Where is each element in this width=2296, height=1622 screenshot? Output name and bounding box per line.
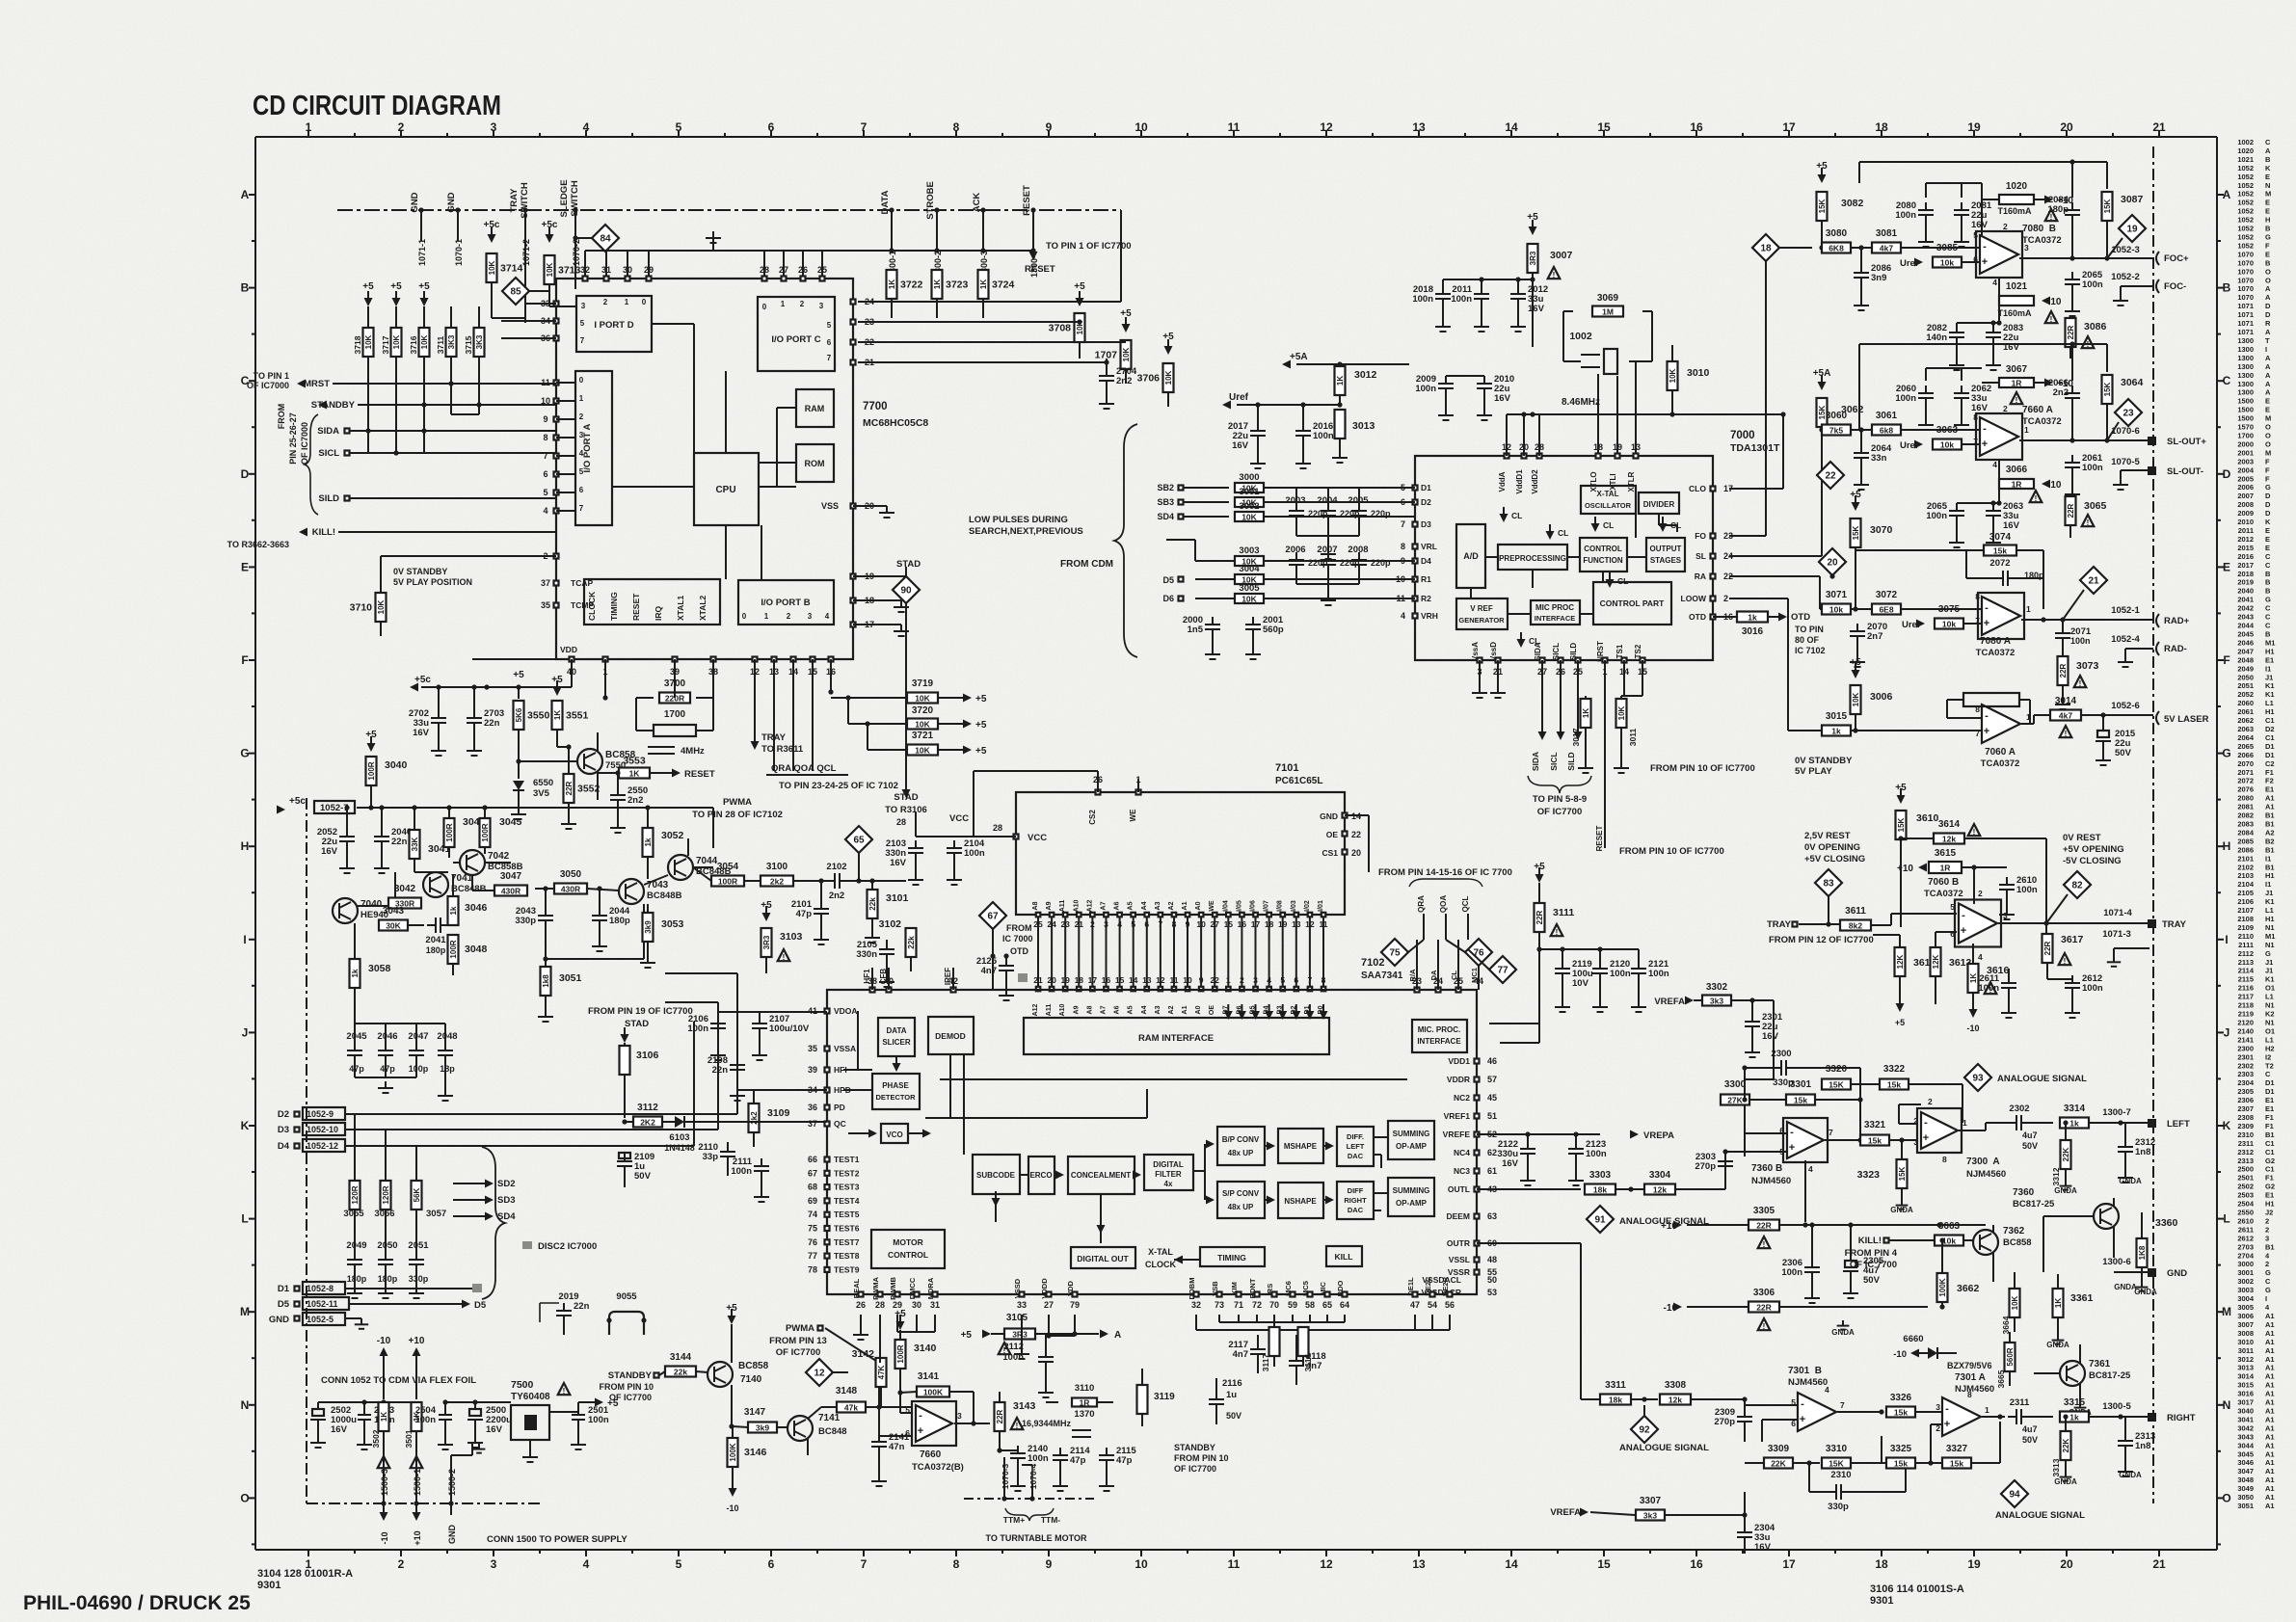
svg-text:20: 20 [1351, 848, 1361, 858]
svg-text:!: ! [2016, 396, 2018, 405]
svg-text:3051: 3051 [2237, 1502, 2254, 1510]
svg-text:2302: 2302 [2009, 1103, 2029, 1114]
op-amp 7301 A [1942, 1397, 1981, 1436]
mcu ROM block [796, 444, 834, 482]
svg-text:13: 13 [1142, 975, 1152, 985]
svg-text:3706: 3706 [1137, 373, 1161, 385]
svg-text:-: - [1945, 1403, 1949, 1415]
svg-text:3067: 3067 [2006, 364, 2028, 375]
resistor 3361b [2053, 1289, 2064, 1317]
svg-text:2310: 2310 [2237, 1130, 2254, 1139]
svg-text:STANDBY: STANDBY [1174, 1443, 1215, 1452]
svg-text:47p: 47p [349, 1064, 364, 1074]
svg-text:100n: 100n [1028, 1453, 1049, 1464]
svg-text:2114: 2114 [2238, 967, 2255, 975]
svg-text:-: - [1985, 602, 1989, 614]
svg-text:3310: 3310 [1826, 1444, 1848, 1454]
svg-text:C: C [2265, 138, 2271, 146]
svg-text:-10: -10 [1966, 1024, 1979, 1033]
svg-text:22R: 22R [996, 1409, 1004, 1423]
svg-text:K1: K1 [2265, 897, 2275, 906]
transistor 7042 [460, 850, 485, 875]
saa bottom pins group4 [1413, 1292, 1418, 1297]
tda control function block [1580, 538, 1627, 572]
svg-text:17: 17 [1088, 975, 1098, 985]
svg-text:B: B [241, 281, 250, 295]
svg-text:OSCILLATOR: OSCILLATOR [1585, 501, 1632, 510]
svg-text:1071: 1071 [2237, 310, 2254, 319]
+5 output arrow [595, 1398, 603, 1407]
svg-text:1052: 1052 [2237, 225, 2254, 233]
svg-text:50V: 50V [634, 1171, 652, 1182]
svg-text:3047: 3047 [500, 871, 522, 882]
svg-text:3: 3 [579, 431, 584, 439]
svg-text:2085: 2085 [2237, 837, 2254, 845]
saa phase detector block [872, 1074, 920, 1109]
svg-text:3004: 3004 [1239, 564, 1260, 574]
capacitor 2010 [1477, 383, 1492, 385]
svg-text:Uref: Uref [1900, 440, 1919, 451]
svg-text:B: B [2265, 578, 2271, 587]
svg-text:3111: 3111 [1553, 907, 1574, 918]
svg-text:3017: 3017 [2237, 1398, 2254, 1407]
svg-text:1070-1: 1070-1 [454, 239, 464, 266]
saa subcode block [973, 1155, 1020, 1194]
svg-text:RIGHT: RIGHT [1344, 1196, 1367, 1205]
svg-text:12k: 12k [1653, 1185, 1667, 1195]
svg-text:3141: 3141 [918, 1371, 940, 1382]
svg-text:80 OF: 80 OF [1795, 635, 1820, 645]
wire vcc to ram [915, 811, 917, 837]
svg-text:3326: 3326 [1890, 1393, 1912, 1403]
ram bus line I/04 [1226, 913, 1231, 917]
svg-text:47K: 47K [877, 1365, 886, 1379]
svg-text:3711: 3711 [436, 336, 445, 355]
svg-text:10K: 10K [1164, 370, 1173, 385]
svg-text:1052: 1052 [2237, 233, 2254, 242]
svg-text:ANALOGUE SIGNAL: ANALOGUE SIGNAL [1619, 1443, 1709, 1453]
svg-text:180p: 180p [347, 1274, 367, 1284]
svg-text:7700: 7700 [863, 401, 888, 412]
svg-text:PWMA: PWMA [871, 1277, 880, 1300]
svg-text:E1: E1 [2265, 1104, 2274, 1113]
svg-text:1052-8: 1052-8 [307, 1284, 334, 1293]
saa bp conv block [1217, 1127, 1265, 1165]
group1 resistor 3085 uref [1914, 258, 1923, 267]
svg-text:2044: 2044 [2237, 622, 2255, 630]
outl wire [1477, 1188, 1581, 1190]
supply +5c arrow resistor 3713 [546, 234, 554, 243]
svg-text:22: 22 [865, 337, 874, 347]
svg-text:T2: T2 [2265, 1061, 2274, 1070]
svg-text:A1: A1 [2265, 794, 2275, 803]
svg-text:2046: 2046 [377, 1031, 397, 1042]
svg-text:5: 5 [580, 319, 585, 328]
svg-text:+: + [1984, 618, 1989, 629]
svg-text:H: H [2265, 216, 2270, 225]
svg-text:K2: K2 [2265, 1010, 2275, 1019]
svg-text:B1: B1 [2265, 845, 2275, 854]
svg-text:D: D [241, 467, 250, 481]
tda vref generator block [1456, 598, 1508, 629]
svg-text:65: 65 [1322, 1300, 1332, 1310]
svg-text:180p: 180p [426, 945, 446, 955]
capacitor 2703 [473, 687, 475, 711]
svg-text:RAD-: RAD- [2164, 644, 2187, 654]
op-amp 7360 B [1787, 1122, 1824, 1158]
svg-text:GNDA: GNDA [2119, 1177, 2142, 1185]
svg-text:OUTL: OUTL [1448, 1184, 1470, 1194]
svg-text:A: A [2265, 388, 2271, 397]
diamond 12 [806, 1359, 833, 1386]
svg-text:7044: 7044 [696, 856, 718, 866]
svg-text:3087: 3087 [2121, 194, 2144, 205]
svg-text:3: 3 [491, 1557, 497, 1571]
svg-text:11: 11 [1228, 1557, 1241, 1571]
tda top pins [1505, 454, 1509, 459]
mcu I/O PORT A block [575, 371, 612, 525]
svg-text:1052-2: 1052-2 [2111, 272, 2140, 282]
svg-text:-5V CLOSING: -5V CLOSING [2063, 856, 2122, 866]
svg-text:3014: 3014 [2055, 696, 2077, 706]
svg-text:GNDA: GNDA [2119, 1471, 2142, 1479]
svg-text:3007: 3007 [2237, 1320, 2254, 1329]
svg-text:A10: A10 [1073, 899, 1080, 912]
svg-text:2012: 2012 [2237, 535, 2254, 544]
svg-text:2,5V REST: 2,5V REST [1804, 831, 1851, 841]
Uref arrow left [1222, 401, 1231, 410]
svg-text:35: 35 [541, 600, 550, 610]
svg-text:BC817-25: BC817-25 [2013, 1199, 2055, 1210]
svg-text:-: - [1962, 910, 1965, 921]
svg-text:RESET: RESET [631, 593, 641, 621]
svg-text:33p: 33p [703, 1152, 719, 1162]
svg-text:RS: RS [1266, 1284, 1274, 1293]
disc2 note [522, 1241, 532, 1249]
svg-text:330n: 330n [856, 949, 877, 960]
svg-text:50: 50 [1487, 1275, 1497, 1285]
svg-text:L: L [241, 1212, 248, 1226]
capacitor 2102 2n2 [834, 873, 836, 889]
svg-text:2015: 2015 [2237, 544, 2254, 552]
capacitor 2610 [1999, 884, 2015, 886]
caps 2611 2612 [2001, 982, 2016, 984]
svg-text:3: 3 [2265, 1234, 2269, 1242]
diamond 19 [2119, 215, 2146, 242]
svg-text:7301 A: 7301 A [1955, 1372, 1986, 1383]
resistor 3051 1K8 [541, 967, 551, 996]
svg-text:B: B [2265, 630, 2271, 639]
svg-text:3016: 3016 [2237, 1390, 2254, 1398]
svg-text:3714: 3714 [500, 263, 523, 275]
svg-text:22R: 22R [2059, 663, 2068, 678]
svg-text:2113: 2113 [2238, 958, 2254, 967]
svg-text:QC: QC [834, 1119, 846, 1129]
svg-text:3046: 3046 [2237, 1458, 2254, 1467]
svg-text:3300: 3300 [1724, 1079, 1747, 1090]
svg-text:CL: CL [1511, 511, 1522, 520]
svg-text:I: I [2265, 345, 2267, 354]
svg-text:TEST5: TEST5 [834, 1210, 860, 1219]
svg-text:+5: +5 [975, 746, 987, 757]
svg-text:3: 3 [808, 612, 813, 621]
svg-text:70: 70 [1269, 1300, 1279, 1310]
resistor 3146 [728, 1438, 738, 1467]
op-amp 7080 A [1982, 597, 2020, 635]
svg-text:16V: 16V [1762, 1031, 1779, 1042]
capacitor 2312 [2118, 1146, 2133, 1148]
svg-text:1300-6: 1300-6 [2102, 1257, 2131, 1267]
svg-text:-: - [1924, 1117, 1928, 1129]
svg-text:L1: L1 [2265, 699, 2274, 707]
vrefe vrepa out [1477, 1133, 1600, 1135]
svg-text:TTM+: TTM+ [1003, 1515, 1025, 1525]
svg-text:I/06: I/06 [1250, 900, 1257, 912]
left signal KILL [299, 528, 307, 537]
op-amp 7660 B motor [916, 1405, 952, 1442]
svg-text:1300: 1300 [2237, 345, 2254, 354]
group3 capacitor 2071 [2062, 620, 2064, 628]
svg-text:15K: 15K [1818, 199, 1827, 213]
svg-text:DAC: DAC [1348, 1152, 1364, 1160]
mcu CPU block [694, 453, 759, 525]
svg-text:7080 B: 7080 B [2022, 224, 2056, 234]
svg-text:8.46MHz: 8.46MHz [1562, 397, 1600, 408]
svg-text:!: ! [563, 1387, 566, 1396]
svg-text:37: 37 [808, 1119, 817, 1129]
svg-text:7660: 7660 [920, 1449, 942, 1460]
svg-text:22K: 22K [1771, 1459, 1786, 1469]
caps 2306 2305 [1804, 1266, 1820, 1268]
svg-text:1070: 1070 [2237, 250, 2254, 258]
svg-text:TEST6: TEST6 [834, 1224, 860, 1234]
svg-text:I/05: I/05 [1236, 900, 1242, 912]
svg-text:DEEM: DEEM [1446, 1211, 1470, 1221]
svg-text:O1: O1 [2265, 984, 2275, 993]
svg-text:FROM PIN 13: FROM PIN 13 [769, 1336, 827, 1346]
svg-text:OF IC 7700: OF IC 7700 [1850, 1260, 1897, 1270]
resistor 3101 22K [868, 890, 878, 918]
svg-text:E: E [2223, 560, 2230, 573]
svg-text:100n: 100n [1978, 983, 1999, 994]
svg-text:430R: 430R [561, 885, 580, 894]
svg-text:6: 6 [768, 1557, 775, 1571]
svg-text:A: A [2265, 354, 2271, 362]
svg-text:2011: 2011 [2238, 526, 2254, 535]
svg-text:TO R3611: TO R3611 [761, 744, 804, 755]
svg-text:C: C [2265, 622, 2271, 630]
svg-text:54: 54 [1428, 1300, 1437, 1310]
saa erco block [1028, 1157, 1055, 1194]
svg-text:C1: C1 [2265, 1165, 2275, 1174]
svg-text:15K: 15K [1898, 1166, 1907, 1181]
svg-text:GND: GND [1320, 811, 1338, 821]
svg-text:100n: 100n [414, 1415, 436, 1425]
svg-text:NJM4560: NJM4560 [1788, 1377, 1828, 1388]
svg-text:8: 8 [1975, 592, 1980, 601]
svg-text:7141: 7141 [818, 1413, 841, 1423]
saa digital out block [1071, 1247, 1135, 1268]
ram bus line A11 [1063, 913, 1068, 917]
svg-text:3148: 3148 [836, 1386, 858, 1396]
tda CL labels [1500, 514, 1508, 522]
svg-text:6E8: 6E8 [1879, 605, 1893, 615]
svg-text:48x UP: 48x UP [1228, 1203, 1254, 1211]
svg-text:67: 67 [808, 1168, 817, 1178]
capacitor 2140 [1010, 1452, 1026, 1454]
svg-text:A: A [241, 188, 250, 201]
svg-text:FOC+: FOC+ [2164, 253, 2189, 264]
svg-text:1K: 1K [1582, 708, 1590, 718]
svg-text:VREFE: VREFE [1443, 1130, 1471, 1139]
svg-text:CONN 1500 TO POWER SUPPLY: CONN 1500 TO POWER SUPPLY [487, 1534, 627, 1545]
svg-text:8: 8 [1401, 542, 1405, 551]
svg-text:LOOW: LOOW [1681, 594, 1707, 603]
svg-text:E1: E1 [2265, 655, 2274, 664]
svg-text:J2: J2 [2265, 1209, 2273, 1217]
svg-text:TCA0372: TCA0372 [1976, 648, 2016, 658]
svg-text:3112: 3112 [637, 1103, 658, 1113]
svg-text:TCMP: TCMP [571, 600, 594, 610]
svg-text:E: E [2265, 173, 2270, 181]
svg-text:65: 65 [853, 836, 865, 846]
diamond 23 [2115, 399, 2142, 426]
svg-text:CL: CL [1603, 520, 1614, 530]
svg-text:MDRA: MDRA [926, 1277, 935, 1299]
svg-text:3071: 3071 [1826, 590, 1848, 600]
svg-text:1071: 1071 [2237, 328, 2254, 336]
svg-text:A: A [2265, 362, 2271, 371]
svg-text:7: 7 [827, 354, 832, 362]
svg-text:8: 8 [1942, 1155, 1947, 1164]
svg-text:ERCO: ERCO [1029, 1171, 1052, 1180]
group1 resistor 3080 [1822, 243, 1851, 253]
svg-text:N1: N1 [2265, 1001, 2275, 1010]
svg-text:22k: 22k [674, 1368, 687, 1377]
svg-text:15K: 15K [1829, 1459, 1844, 1469]
svg-text:D5: D5 [474, 1300, 487, 1311]
svg-text:1R: 1R [1080, 1398, 1090, 1408]
svg-text:16V: 16V [1232, 440, 1249, 451]
svg-text:3312: 3312 [2051, 1167, 2061, 1185]
svg-text:50V: 50V [1863, 1275, 1881, 1286]
svg-text:3043: 3043 [383, 906, 405, 917]
svg-text:1: 1 [1962, 1118, 1967, 1128]
svg-text:1k: 1k [351, 969, 360, 977]
svg-text:10K: 10K [2011, 1295, 2019, 1310]
saa diff left dac block [1337, 1127, 1374, 1166]
resistor 3662 [1937, 1273, 1948, 1302]
capacitor 2016 [1302, 405, 1304, 424]
svg-text:3309: 3309 [1768, 1444, 1790, 1454]
svg-text:2049: 2049 [2237, 664, 2254, 673]
svg-text:+5V OPENING: +5V OPENING [2063, 844, 2124, 855]
svg-text:8: 8 [543, 433, 547, 442]
svg-text:+5c: +5c [414, 675, 431, 685]
svg-text:D: D [2265, 492, 2271, 500]
svg-text:3617: 3617 [2061, 934, 2084, 945]
resistor 3109 [749, 1103, 760, 1132]
svg-text:330p: 330p [1828, 1502, 1849, 1512]
capacitor 2502 [312, 1409, 324, 1416]
svg-text:3314: 3314 [2064, 1103, 2086, 1114]
svg-text:3073: 3073 [2076, 660, 2099, 672]
svg-text:TEST7: TEST7 [834, 1237, 860, 1247]
svg-text:T160mA: T160mA [1997, 308, 2032, 318]
svg-text:!: ! [1973, 828, 1976, 837]
svg-text:2308: 2308 [2237, 1113, 2254, 1122]
svg-text:10K: 10K [1122, 347, 1131, 361]
svg-text:140n: 140n [1926, 332, 1947, 343]
svg-text:1M: 1M [1602, 307, 1614, 317]
svg-text:PWMA: PWMA [786, 1323, 814, 1334]
svg-text:22k: 22k [868, 897, 877, 911]
saa diff right dac block [1337, 1182, 1374, 1219]
svg-text:1500: 1500 [2237, 406, 2254, 414]
svg-text:G: G [2265, 949, 2271, 958]
saa kill block [1326, 1246, 1362, 1266]
group3 output RAD+ [2021, 619, 2153, 621]
svg-text:16V: 16V [2003, 520, 2020, 531]
svg-text:I/01: I/01 [1318, 900, 1324, 912]
svg-text:3081: 3081 [1876, 228, 1898, 239]
svg-text:27K: 27K [1727, 1096, 1743, 1105]
svg-text:VCC: VCC [1028, 833, 1047, 843]
svg-text:1: 1 [579, 394, 584, 403]
resistor 3041 33K [410, 830, 420, 859]
svg-text:2001: 2001 [2237, 448, 2254, 457]
svg-text:A3: A3 [1155, 1005, 1161, 1014]
svg-text:+: + [1789, 1142, 1795, 1154]
capacitor 2141 [871, 1441, 887, 1443]
svg-text:TO PIN 1: TO PIN 1 [254, 371, 289, 381]
svg-text:+: + [1982, 256, 1988, 268]
saa internal wires left [857, 1011, 859, 1070]
svg-text:CONCEALMENT: CONCEALMENT [1071, 1171, 1131, 1180]
svg-text:3: 3 [957, 1411, 962, 1421]
svg-text:2309: 2309 [2237, 1122, 2254, 1130]
svg-text:3057: 3057 [426, 1209, 446, 1219]
svg-text:INTERFACE: INTERFACE [1417, 1037, 1461, 1046]
svg-text:120R: 120R [351, 1185, 360, 1204]
svg-text:O: O [2265, 423, 2271, 432]
svg-text:DE2R: DE2R [1441, 1276, 1450, 1296]
ram bus line I/01 [1322, 913, 1326, 917]
svg-text:E: E [2265, 199, 2270, 207]
svg-text:1070: 1070 [2237, 293, 2254, 302]
svg-text:+5c: +5c [289, 796, 306, 807]
node TRAY SWITCH 1071-2 [524, 210, 526, 318]
svg-text:F1: F1 [2265, 1174, 2274, 1183]
svg-text:15k: 15k [1894, 1459, 1908, 1469]
svg-text:93: 93 [1972, 1074, 1984, 1084]
svg-text:A1: A1 [1182, 901, 1188, 910]
svg-text:2003: 2003 [2237, 457, 2254, 465]
capacitor 2111 100n [754, 1165, 769, 1167]
svg-text:2010: 2010 [2237, 518, 2254, 526]
capacitor 2108 22n [730, 1064, 745, 1066]
transistor 7362 [1973, 1230, 1998, 1255]
svg-text:1071-1: 1071-1 [417, 239, 427, 266]
svg-text:+5: +5 [975, 694, 987, 705]
svg-text:3116: 3116 [1303, 1354, 1313, 1372]
svg-text:SIDA: SIDA [1531, 752, 1540, 771]
svg-text:TEST3: TEST3 [834, 1183, 860, 1192]
supply -10 +10 arrows [380, 1347, 388, 1356]
svg-text:-10: -10 [726, 1503, 738, 1513]
svg-text:3302: 3302 [1706, 982, 1728, 993]
svg-text:3101: 3101 [886, 892, 909, 904]
